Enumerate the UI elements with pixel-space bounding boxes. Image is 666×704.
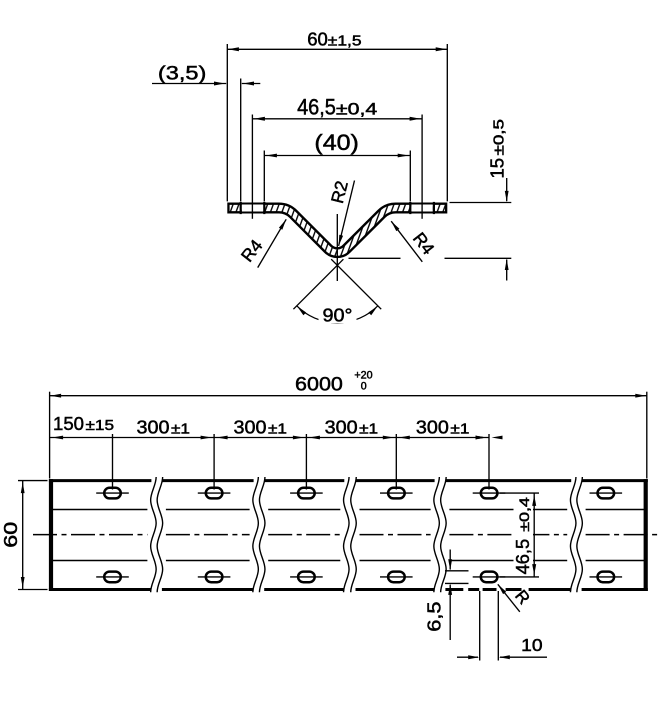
slot hole bottom row col 1 — [96, 572, 129, 583]
extension line left edge (60 dim) — [226, 44, 228, 201]
slot hole bottom row col 2 — [198, 572, 231, 583]
svg-text:6,5: 6,5 — [424, 601, 445, 631]
svg-text:150: 150 — [53, 413, 84, 434]
slot hole bottom row col 6 — [590, 572, 623, 583]
svg-text:±1: ±1 — [450, 421, 469, 437]
slot hole bottom row col 5 — [473, 572, 506, 583]
slot hole bottom row col 4 — [380, 572, 413, 583]
svg-text:±15: ±15 — [86, 418, 115, 434]
slot hole top row col 5 — [473, 488, 506, 499]
dimension 60 (strip width) — [0, 481, 48, 590]
svg-text:60: 60 — [307, 28, 328, 49]
flank extension line (right flank extended) — [293, 259, 343, 309]
break line pair 1 — [151, 477, 163, 592]
radius R2 leader — [327, 179, 355, 246]
slot hole bottom row col 3 — [290, 572, 323, 583]
break line pair 5 — [570, 477, 582, 592]
svg-text:60: 60 — [0, 522, 21, 548]
break line pair 4 — [434, 477, 446, 592]
svg-text:±1: ±1 — [359, 421, 378, 437]
strip left edge — [49, 479, 53, 591]
dimension 300±1 #2 — [234, 416, 288, 437]
break line pair 3 — [344, 477, 357, 592]
extension line slot inner edge right ((40) dim) — [409, 151, 411, 202]
profile section outline (V-profile cross-section) — [227, 208, 447, 253]
svg-text:15: 15 — [487, 158, 508, 179]
strip bottom edge — [49, 588, 648, 591]
dimension 10 (slot length) — [457, 591, 547, 661]
radius R leader (slot end) — [498, 584, 534, 612]
svg-text:300: 300 — [325, 416, 358, 437]
bend line upper — [52, 509, 645, 511]
dimension (3,5) — [152, 62, 260, 85]
svg-text:46,5: 46,5 — [297, 95, 336, 120]
svg-text:10: 10 — [521, 635, 543, 655]
chain dimension line — [50, 436, 503, 440]
hole centerline col 3 (extension) — [305, 434, 307, 490]
dimension 15±0,5 — [487, 119, 509, 281]
slot hole top row col 4 — [380, 488, 413, 499]
dimension 46,5±0,4 — [252, 95, 422, 121]
dimension 60±1,5 — [227, 28, 447, 51]
slot hole gap left (section cut through slot) — [241, 202, 265, 214]
slot hole top row col 2 — [198, 488, 231, 499]
dimension 150±15 — [53, 413, 114, 434]
hole centerline col 1 (extension) — [112, 434, 114, 490]
svg-text:300: 300 — [137, 416, 170, 437]
strip right edge — [644, 479, 648, 591]
extension line bottom tip (15 dim) — [349, 257, 512, 259]
slot hole gap right (section cut through slot) — [410, 202, 434, 214]
extension line top surface (15 dim) — [450, 202, 512, 204]
slot centerline right — [421, 115, 423, 219]
dimension 300±1 #1 — [137, 416, 191, 437]
svg-text:±1: ±1 — [171, 421, 190, 437]
angle text 90° — [319, 304, 357, 325]
svg-text:±1: ±1 — [268, 421, 287, 437]
radius R4 leader left — [237, 219, 286, 267]
svg-text:90°: 90° — [323, 304, 353, 325]
svg-text:±0,5: ±0,5 — [492, 119, 508, 156]
dimension (40) — [264, 130, 410, 157]
dimension 46,5±0,4 (hole rows) — [500, 493, 539, 577]
strip top edge — [49, 479, 648, 482]
svg-text:6000: 6000 — [295, 374, 343, 396]
apex vertical centerline — [336, 214, 338, 281]
slot centerline left — [251, 115, 253, 219]
dimension 300±1 #4 — [416, 416, 470, 437]
strip centerline (dash-dot) — [33, 534, 661, 536]
hole centerline col 2 (extension) — [213, 434, 215, 490]
extension line right edge (60 dim) — [446, 44, 448, 201]
profile section hatching — [230, 208, 445, 253]
svg-text:±0,4: ±0,4 — [517, 497, 532, 532]
flank extension line (left flank extended) — [331, 259, 381, 309]
dimension 300±1 #3 — [325, 416, 379, 437]
break line pair 2 — [253, 477, 265, 592]
svg-text:(3,5): (3,5) — [158, 62, 207, 84]
slot hole top row col 3 — [290, 488, 323, 499]
extension line slot inner edge left ((40) dim) — [263, 151, 265, 202]
hole centerline col 5 (extension) — [488, 434, 490, 490]
svg-text:±0,4: ±0,4 — [336, 100, 377, 119]
extension line slot outer edge ((3,5) dim) — [240, 79, 242, 202]
dimension 6,5 (slot width) — [424, 550, 469, 641]
svg-text:300: 300 — [416, 416, 449, 437]
svg-text:0: 0 — [361, 380, 367, 392]
slot hole top row col 1 — [96, 488, 129, 499]
svg-text:300: 300 — [234, 416, 267, 437]
svg-text:46,5: 46,5 — [512, 539, 533, 575]
dimension 6000 +20/0 — [50, 369, 647, 478]
bend line lower — [52, 560, 645, 562]
svg-text:±1,5: ±1,5 — [328, 33, 362, 49]
svg-text:(40): (40) — [314, 130, 359, 155]
slot hole top row col 6 — [590, 488, 623, 499]
hole centerline col 4 (extension) — [395, 434, 397, 490]
radius R4 leader right — [391, 221, 438, 262]
angle arc 90° — [297, 306, 378, 323]
